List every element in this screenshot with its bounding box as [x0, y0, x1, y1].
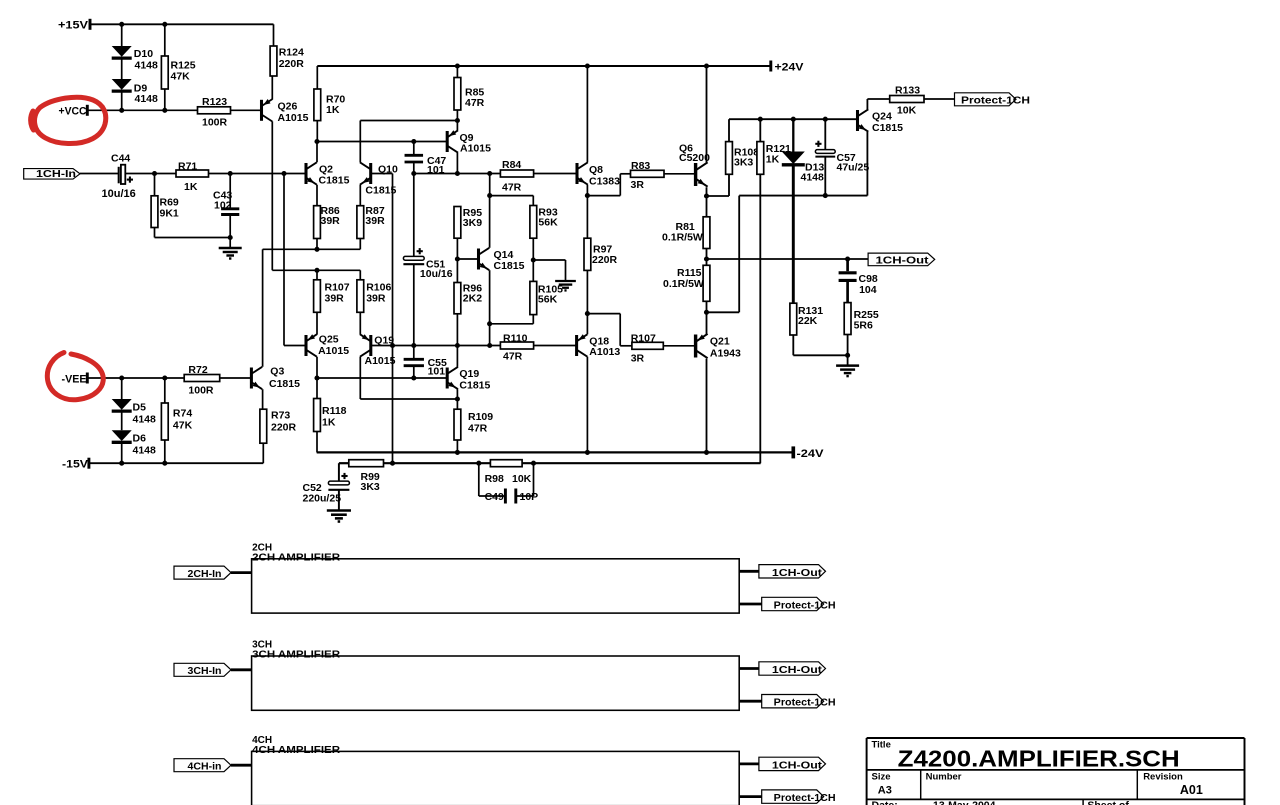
svg-text:Q21: Q21	[710, 336, 730, 348]
svg-text:4CH-in: 4CH-in	[188, 762, 222, 773]
svg-text:3R: 3R	[631, 353, 645, 365]
svg-text:Date:: Date:	[872, 799, 898, 805]
svg-text:220R: 220R	[271, 422, 297, 434]
svg-text:4CH AMPLIFIER: 4CH AMPLIFIER	[252, 745, 341, 756]
svg-text:D5: D5	[133, 402, 147, 414]
svg-text:39R: 39R	[366, 293, 386, 305]
svg-text:56K: 56K	[538, 217, 558, 229]
svg-text:39R: 39R	[365, 215, 385, 227]
svg-text:47u/25: 47u/25	[837, 162, 870, 174]
svg-text:Size: Size	[872, 772, 891, 783]
svg-text:-24V: -24V	[797, 448, 825, 460]
svg-text:R123: R123	[202, 96, 227, 108]
svg-text:9K1: 9K1	[160, 208, 179, 220]
svg-text:R98: R98	[485, 473, 504, 485]
svg-text:22K: 22K	[798, 315, 818, 327]
svg-text:47K: 47K	[173, 419, 193, 431]
svg-text:47K: 47K	[171, 71, 191, 83]
svg-text:4148: 4148	[135, 60, 159, 72]
svg-text:Q24: Q24	[872, 111, 892, 123]
svg-text:R107: R107	[631, 333, 656, 345]
svg-text:+24V: +24V	[775, 62, 805, 74]
svg-text:R110: R110	[503, 332, 528, 344]
svg-text:A01: A01	[1180, 783, 1203, 797]
svg-text:1CH-Out: 1CH-Out	[876, 256, 930, 267]
svg-text:Z4200.AMPLIFIER.SCH: Z4200.AMPLIFIER.SCH	[898, 746, 1180, 772]
svg-text:A1015: A1015	[365, 355, 396, 367]
svg-text:3K9: 3K9	[463, 217, 482, 229]
svg-text:Number: Number	[926, 772, 962, 783]
svg-text:10u/16: 10u/16	[420, 268, 453, 280]
svg-text:10K: 10K	[512, 473, 532, 485]
svg-text:Protect-1CH: Protect-1CH	[774, 601, 836, 612]
svg-text:D6: D6	[133, 433, 147, 445]
svg-text:Q3: Q3	[270, 366, 284, 378]
svg-text:1CH-Out: 1CH-Out	[772, 568, 823, 579]
svg-text:1CH-Out: 1CH-Out	[772, 760, 823, 771]
svg-text:Revision: Revision	[1143, 772, 1183, 783]
svg-text:3K3: 3K3	[361, 481, 380, 493]
svg-text:1K: 1K	[766, 154, 780, 166]
svg-text:C49: C49	[485, 491, 504, 503]
svg-text:R72: R72	[188, 364, 207, 376]
svg-text:A1015: A1015	[278, 112, 309, 124]
svg-text:R133: R133	[895, 85, 920, 97]
svg-text:220R: 220R	[592, 254, 618, 266]
svg-text:C1383: C1383	[589, 176, 620, 188]
svg-text:C1815: C1815	[319, 175, 350, 187]
svg-text:C5200: C5200	[679, 152, 710, 164]
svg-text:47R: 47R	[465, 97, 485, 109]
svg-text:R109: R109	[468, 411, 493, 423]
svg-text:Q8: Q8	[589, 164, 603, 176]
svg-text:R118: R118	[322, 405, 347, 417]
svg-text:C44: C44	[111, 153, 130, 165]
svg-text:R71: R71	[178, 160, 197, 172]
svg-text:0.1R/5W: 0.1R/5W	[662, 231, 703, 243]
svg-text:R73: R73	[271, 410, 290, 422]
svg-text:1CH-In: 1CH-In	[36, 169, 76, 180]
svg-text:1CH-Out: 1CH-Out	[772, 665, 823, 676]
svg-text:1K: 1K	[326, 104, 340, 116]
svg-text:220u/25: 220u/25	[303, 492, 342, 504]
svg-text:R84: R84	[502, 159, 521, 171]
svg-text:104: 104	[859, 284, 877, 296]
svg-text:Q26: Q26	[278, 101, 298, 113]
svg-text:0.1R/5W: 0.1R/5W	[663, 278, 704, 290]
svg-text:-15V: -15V	[62, 459, 89, 471]
svg-text:100R: 100R	[188, 385, 214, 397]
svg-text:2CH AMPLIFIER: 2CH AMPLIFIER	[252, 552, 341, 563]
svg-text:C1815: C1815	[269, 378, 300, 390]
svg-text:4148: 4148	[133, 413, 157, 425]
svg-text:A1943: A1943	[710, 348, 741, 360]
svg-text:47R: 47R	[468, 423, 488, 435]
svg-text:47R: 47R	[503, 351, 523, 363]
svg-text:47R: 47R	[502, 182, 522, 194]
svg-text:-VEE: -VEE	[62, 373, 87, 385]
svg-text:D10: D10	[134, 48, 153, 60]
svg-text:Protect-1CH: Protect-1CH	[774, 793, 836, 804]
svg-text:39R: 39R	[321, 215, 341, 227]
svg-text:39R: 39R	[325, 293, 345, 305]
svg-text:10u/16: 10u/16	[102, 188, 136, 200]
svg-text:56K: 56K	[538, 294, 558, 306]
svg-text:3R: 3R	[631, 179, 645, 191]
svg-text:3CH AMPLIFIER: 3CH AMPLIFIER	[252, 650, 341, 661]
svg-text:4148: 4148	[133, 444, 157, 456]
svg-text:4148: 4148	[801, 171, 825, 183]
svg-text:C1815: C1815	[872, 122, 903, 134]
svg-text:C1815: C1815	[459, 379, 490, 391]
svg-text:R124: R124	[279, 47, 304, 59]
svg-text:2CH-In: 2CH-In	[188, 569, 222, 580]
svg-text:10P: 10P	[520, 491, 539, 503]
svg-text:13-May-2004: 13-May-2004	[933, 799, 996, 805]
svg-text:3CH-In: 3CH-In	[188, 666, 222, 677]
svg-text:R74: R74	[173, 408, 192, 420]
svg-text:A1015: A1015	[460, 143, 491, 155]
svg-text:100R: 100R	[202, 117, 228, 129]
svg-text:Protect-1CH: Protect-1CH	[961, 96, 1030, 107]
svg-text:5R6: 5R6	[854, 320, 873, 332]
svg-text:R83: R83	[631, 160, 650, 172]
svg-text:2K2: 2K2	[463, 293, 482, 305]
svg-text:Sheet of: Sheet of	[1087, 799, 1129, 805]
svg-text:A1013: A1013	[589, 346, 620, 358]
svg-text:3K3: 3K3	[734, 157, 753, 169]
svg-text:Q19: Q19	[459, 368, 479, 380]
svg-text:Q25: Q25	[319, 334, 339, 346]
svg-text:4148: 4148	[135, 93, 159, 105]
svg-text:A3: A3	[878, 785, 892, 797]
svg-text:C1815: C1815	[494, 260, 525, 272]
svg-text:10K: 10K	[897, 105, 917, 117]
svg-text:+15V: +15V	[58, 20, 89, 32]
svg-text:220R: 220R	[279, 58, 305, 70]
svg-text:1K: 1K	[322, 417, 336, 429]
svg-text:+VCC: +VCC	[59, 106, 87, 118]
svg-text:Title: Title	[872, 740, 891, 751]
svg-text:101: 101	[428, 365, 446, 377]
svg-text:102: 102	[214, 199, 232, 211]
svg-text:Protect-1CH: Protect-1CH	[774, 698, 836, 709]
svg-text:1K: 1K	[184, 181, 198, 193]
svg-text:A1015: A1015	[318, 345, 349, 357]
